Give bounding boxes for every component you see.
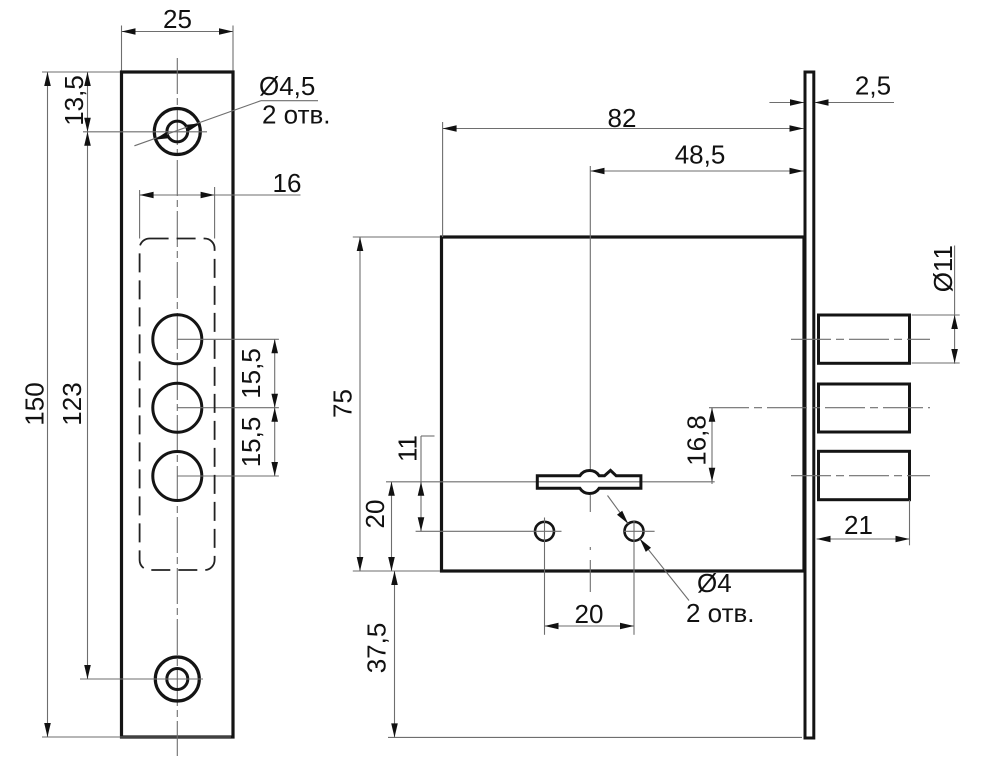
dimension 48,5: dimension line bbox=[591, 170, 804, 172]
svg-text:75: 75 bbox=[328, 389, 358, 418]
svg-text:2 отв.: 2 отв. bbox=[262, 100, 331, 130]
dimension 123: dimension line bbox=[87, 132, 89, 679]
svg-text:16: 16 bbox=[273, 168, 302, 198]
dimension 25: extension lines bbox=[121, 26, 123, 71]
svg-text:48,5: 48,5 bbox=[675, 140, 726, 170]
dimension 150: dimension line bbox=[47, 72, 49, 737]
svg-text:2 отв.: 2 отв. bbox=[686, 598, 755, 628]
vertical centerline of faceplate bbox=[176, 58, 178, 756]
fixing hole right centerlines bbox=[624, 530, 655, 532]
lock body outline (side view) bbox=[442, 237, 805, 571]
svg-text:Ø11: Ø11 bbox=[928, 245, 958, 292]
top screw hole horizontal centerline bbox=[83, 131, 207, 133]
dimension 15,5 (lower): arrows bbox=[271, 408, 278, 422]
faceplate outline (front view) bbox=[122, 72, 234, 737]
svg-text:Ø4: Ø4 bbox=[697, 568, 732, 598]
keyhole (double-bit key slot) bbox=[537, 470, 641, 493]
svg-text:Ø4,5: Ø4,5 bbox=[259, 71, 315, 101]
dimension 25: dimension line bbox=[122, 31, 234, 33]
svg-text:123: 123 bbox=[57, 382, 87, 425]
dimension 82: extension line bbox=[442, 122, 444, 237]
bottom screw hole horizontal centerline bbox=[80, 678, 203, 680]
dimension 82: dimension line bbox=[443, 128, 804, 130]
leader line for Ø4 callout bbox=[608, 496, 629, 524]
bolt hole 3 centerline bbox=[177, 475, 279, 477]
leader line for Ø4,5 callout bbox=[134, 101, 261, 146]
keyhole vertical centerline / 48,5 extension bbox=[589, 166, 591, 470]
dimension 20 (keyhole to bottom): dimension line bbox=[391, 482, 393, 571]
dimension 37,5: dimension line bbox=[394, 571, 396, 737]
dimension 150: extension lines bbox=[42, 71, 120, 73]
bolt 2 centerline bbox=[709, 407, 930, 409]
dimension 75: extension lines bbox=[353, 236, 440, 238]
dimension 15,5 (upper): dimension line bbox=[274, 339, 276, 476]
dimension Ø11: dimension line bbox=[954, 246, 956, 364]
dimension 21: extension line bbox=[909, 500, 911, 545]
svg-text:16,8: 16,8 bbox=[682, 415, 712, 466]
dimension 13,5: dimension line bbox=[87, 72, 89, 132]
dimension 16,8: dimension line bbox=[711, 408, 713, 484]
fixing hole left (Ø4) bbox=[535, 522, 554, 541]
svg-text:25: 25 bbox=[163, 4, 192, 34]
svg-text:150: 150 bbox=[20, 382, 50, 425]
bolt hole 1 centerline bbox=[177, 338, 279, 340]
faceplate edge (side view) bbox=[805, 72, 814, 738]
top screw hole Ø4,5 countersunk bbox=[154, 109, 200, 155]
svg-text:15,5: 15,5 bbox=[236, 348, 266, 399]
svg-text:37,5: 37,5 bbox=[362, 623, 392, 674]
dimension 11: dimension line and shelf bbox=[420, 436, 422, 531]
hidden lock body footprint (dashed) bbox=[140, 239, 215, 571]
bolt 3 (side view) bbox=[819, 451, 910, 499]
fixing hole left centerlines bbox=[416, 530, 562, 532]
svg-text:11: 11 bbox=[393, 435, 423, 462]
dimension 75: dimension line bbox=[359, 237, 361, 571]
bolt 3 centerline bbox=[791, 475, 930, 477]
bottom screw hole countersunk bbox=[155, 657, 199, 701]
svg-text:82: 82 bbox=[608, 103, 637, 133]
dimension Ø11: extension lines bbox=[912, 314, 960, 316]
bolt 1 (side view) bbox=[819, 315, 910, 363]
svg-text:2,5: 2,5 bbox=[855, 71, 891, 101]
svg-text:21: 21 bbox=[844, 510, 873, 540]
bolt hole 2 (front view) bbox=[153, 383, 202, 432]
dimension 2,5: dimension lines bbox=[769, 102, 803, 104]
dimension 16: dimension line bbox=[140, 194, 301, 196]
dimension 21: dimension line bbox=[817, 538, 910, 540]
bolt hole 1 (front view) bbox=[153, 315, 202, 364]
bolt hole 2 centerline bbox=[177, 407, 279, 409]
svg-text:13,5: 13,5 bbox=[59, 75, 89, 126]
bolt 1 centerline bbox=[791, 338, 930, 340]
bolt 2 (side view) bbox=[819, 384, 910, 432]
dimension 16: extension lines bbox=[139, 190, 141, 239]
bolt hole 3 (front view) bbox=[153, 452, 202, 501]
dimension 37,5: extension line (faceplate bottom) bbox=[388, 736, 802, 738]
keyhole horizontal centerline bbox=[386, 481, 715, 483]
fixing hole right (Ø4) bbox=[625, 522, 644, 541]
svg-text:20: 20 bbox=[575, 599, 604, 629]
svg-text:15,5: 15,5 bbox=[236, 417, 266, 468]
dimension 20 (hole spacing): dimension line bbox=[545, 625, 635, 627]
svg-text:20: 20 bbox=[360, 500, 390, 529]
